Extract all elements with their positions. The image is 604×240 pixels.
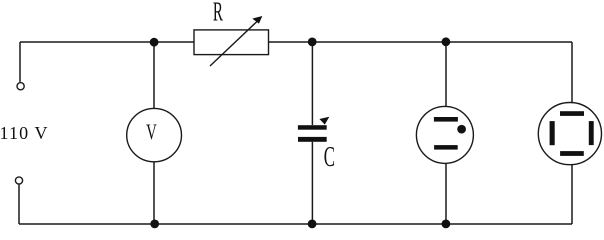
svg-text:110 V: 110 V [0,123,48,143]
svg-text:V: V [146,120,157,145]
svg-text:R: R [213,0,223,27]
svg-text:C: C [324,140,335,172]
